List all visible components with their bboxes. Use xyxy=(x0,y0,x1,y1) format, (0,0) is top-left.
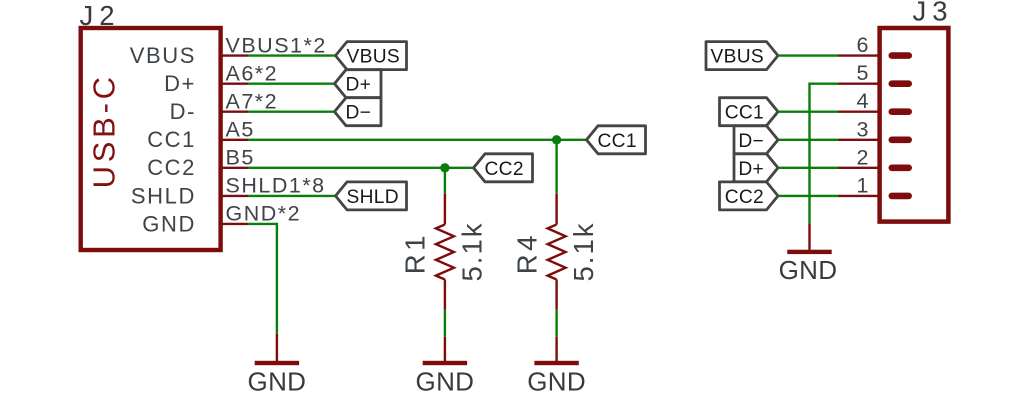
svg-text:D−: D− xyxy=(346,103,372,124)
wire SHLD (J2 pin to SHLD flag) xyxy=(248,195,336,197)
svg-text:D+: D+ xyxy=(164,71,196,96)
J2 pin B5 (CC2) xyxy=(147,146,255,181)
J3 pin 6 xyxy=(838,33,912,59)
svg-text:SHLD: SHLD xyxy=(131,183,196,208)
svg-text:R1: R1 xyxy=(400,232,431,274)
J3 pin 4 xyxy=(838,89,912,115)
wire D+ flag to J3 pin 2 xyxy=(778,167,839,169)
svg-text:D−: D− xyxy=(738,131,764,152)
net label CC2 (left) xyxy=(474,154,533,182)
svg-text:USB-C: USB-C xyxy=(87,73,122,188)
wire VBUS flag to J3 pin 6 xyxy=(778,54,839,56)
svg-text:CC2: CC2 xyxy=(725,187,764,208)
USB-C value label xyxy=(87,73,122,188)
svg-text:D+: D+ xyxy=(346,75,372,96)
J2 pin GND*2 (GND) xyxy=(142,202,301,237)
svg-text:VBUS: VBUS xyxy=(130,43,196,68)
wire CC2 (J2 pin to CC2 flag) xyxy=(248,167,474,169)
net label CC1 (left) xyxy=(587,126,646,154)
svg-text:R4: R4 xyxy=(511,232,542,274)
svg-text:GND: GND xyxy=(527,367,586,396)
net label CC1 (right) xyxy=(720,98,779,126)
net label SHLD (left) xyxy=(336,182,407,210)
svg-text:4: 4 xyxy=(857,89,869,113)
svg-text:VBUS: VBUS xyxy=(711,47,764,68)
svg-text:CC1: CC1 xyxy=(147,127,196,152)
svg-text:CC1: CC1 xyxy=(598,131,637,152)
J2 pin A5 (CC1) xyxy=(147,118,255,153)
wire D- flag to J3 pin 3 xyxy=(778,139,839,141)
J2 designator xyxy=(80,0,121,31)
svg-text:VBUS1*2: VBUS1*2 xyxy=(226,33,327,57)
resistor R4 xyxy=(511,194,599,309)
wire GND to J3 pin 5 xyxy=(810,84,839,224)
svg-text:A7*2: A7*2 xyxy=(226,90,279,114)
wire D- (J2 pin to D- flag) xyxy=(248,110,335,112)
svg-text:GND*2: GND*2 xyxy=(226,202,302,226)
wire CC1 (J2 pin to CC1 flag) xyxy=(248,139,587,141)
J2 pin SHLD1*8 (SHLD) xyxy=(131,174,326,209)
svg-text:1: 1 xyxy=(857,173,869,197)
wire CC2 flag to J3 pin 1 xyxy=(778,195,839,197)
svg-text:2: 2 xyxy=(857,145,869,169)
J3 designator xyxy=(913,0,954,27)
net label CC2 (right) xyxy=(720,182,779,210)
svg-text:J2: J2 xyxy=(80,0,121,31)
junction on CC1 net xyxy=(552,135,561,144)
net label D+ (left) xyxy=(335,70,382,98)
J2 pin A6*2 (D+) xyxy=(164,62,278,97)
net label VBUS (right) xyxy=(706,42,778,70)
svg-text:6: 6 xyxy=(857,33,869,57)
J2 pin A7*2 (D-) xyxy=(170,90,279,125)
svg-text:D-: D- xyxy=(170,99,196,124)
svg-text:A6*2: A6*2 xyxy=(226,62,279,86)
wire R4 to ground xyxy=(555,309,557,337)
ground symbol (R4) xyxy=(527,337,586,396)
svg-text:VBUS: VBUS xyxy=(347,47,400,68)
net label D+ (right) xyxy=(734,154,778,182)
svg-text:5.1k: 5.1k xyxy=(456,222,487,282)
J3 pin 5 xyxy=(838,61,912,87)
connector J3 body xyxy=(880,28,949,222)
svg-text:GND: GND xyxy=(248,367,307,396)
svg-text:CC1: CC1 xyxy=(725,103,764,124)
wire CC1 flag to J3 pin 4 xyxy=(778,110,839,112)
svg-text:D+: D+ xyxy=(738,159,764,180)
svg-text:GND: GND xyxy=(779,255,838,285)
wire VBUS (J2 pin to VBUS flag) xyxy=(248,54,336,56)
wire GND (J2 pin down to ground) xyxy=(248,224,277,334)
J3 pin 2 xyxy=(838,145,912,171)
connector J2 body xyxy=(81,28,221,250)
wire CC1 junction to R4 xyxy=(555,140,557,194)
svg-text:CC2: CC2 xyxy=(147,155,196,180)
svg-text:GND: GND xyxy=(416,367,475,396)
net label VBUS (left) xyxy=(336,42,407,70)
svg-text:SHLD: SHLD xyxy=(347,187,399,208)
ground symbol (R1) xyxy=(416,337,475,396)
svg-text:SHLD1*8: SHLD1*8 xyxy=(226,174,326,198)
wire R1 to ground xyxy=(444,309,446,337)
svg-text:J3: J3 xyxy=(913,0,954,27)
resistor R1 xyxy=(400,194,488,309)
J2 pin VBUS1*2 (VBUS) xyxy=(130,33,327,68)
svg-text:B5: B5 xyxy=(226,146,255,170)
svg-text:A5: A5 xyxy=(226,118,255,142)
net label D- (left) xyxy=(335,98,382,126)
ground symbol (J2 GND net) xyxy=(248,334,307,396)
junction on CC2 net xyxy=(440,163,449,172)
wire CC2 junction to R1 xyxy=(444,168,446,194)
wire D+ (J2 pin to D+ flag) xyxy=(248,82,335,84)
svg-text:GND: GND xyxy=(142,211,196,236)
J3 pin 1 xyxy=(838,173,912,199)
net label D- (right) xyxy=(734,126,778,154)
J3 pin 3 xyxy=(838,117,912,143)
ground symbol (J3 pin 5) xyxy=(779,223,838,284)
svg-text:5: 5 xyxy=(857,61,869,85)
svg-text:5.1k: 5.1k xyxy=(568,222,599,282)
svg-text:3: 3 xyxy=(857,117,869,141)
svg-text:CC2: CC2 xyxy=(485,159,524,180)
